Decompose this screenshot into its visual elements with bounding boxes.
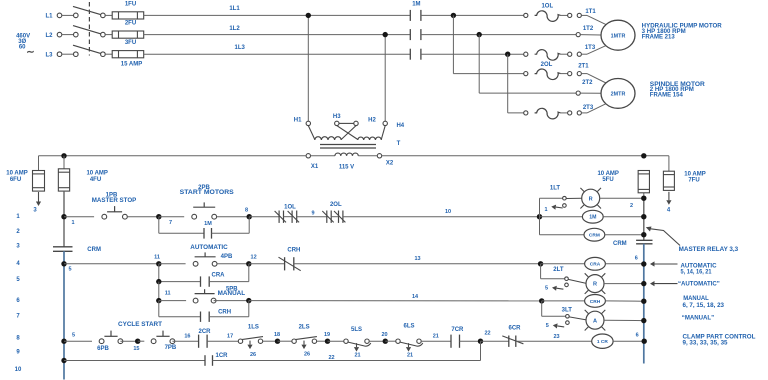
source label 460V 3-phase 60Hz xyxy=(16,33,35,58)
svg-text:T: T xyxy=(397,141,401,147)
svg-text:∼: ∼ xyxy=(26,47,34,58)
svg-text:4FU: 4FU xyxy=(90,177,101,183)
svg-text:2T1: 2T1 xyxy=(578,63,589,69)
svg-text:CRH: CRH xyxy=(218,310,231,316)
svg-text:START MOTORS: START MOTORS xyxy=(180,190,234,196)
pushbutton 4PB automatic NO xyxy=(190,245,233,266)
limit switch 5LS NC xyxy=(344,327,371,358)
node junction rung1 coils xyxy=(537,214,542,219)
ladder line numbers 1-10 xyxy=(15,214,22,373)
svg-text:1CR: 1CR xyxy=(216,353,229,359)
supply line L3 xyxy=(45,52,78,59)
svg-text:7: 7 xyxy=(169,220,172,226)
right rail lower blue xyxy=(643,244,645,364)
left rail lower blue xyxy=(63,251,65,379)
svg-text:1L1: 1L1 xyxy=(229,6,240,12)
svg-text:1MTR: 1MTR xyxy=(611,33,626,39)
control bus wire left xyxy=(39,155,307,157)
svg-text:2MTR: 2MTR xyxy=(611,92,626,98)
svg-text:1M: 1M xyxy=(589,215,596,221)
wire 7CR to node 22 xyxy=(460,340,481,342)
svg-text:X2: X2 xyxy=(386,160,394,166)
svg-text:2: 2 xyxy=(630,203,633,209)
svg-text:FRAME 154: FRAME 154 xyxy=(650,92,684,98)
disconnect switch blade pole L2 xyxy=(73,26,105,37)
svg-text:FRAME 213: FRAME 213 xyxy=(642,34,676,40)
svg-text:A: A xyxy=(593,318,597,324)
node rung9 left rail xyxy=(61,358,66,363)
svg-text:22: 22 xyxy=(484,330,490,336)
coil 1CR clamp relay xyxy=(592,333,645,349)
coil CRH manual relay xyxy=(542,295,644,308)
svg-text:1 CR: 1 CR xyxy=(597,339,608,345)
svg-text:1OL: 1OL xyxy=(284,204,296,210)
svg-text:26: 26 xyxy=(304,352,310,358)
limit switch 2LS NO xyxy=(292,324,317,357)
wire vertical node11 to rung6 xyxy=(158,282,160,301)
svg-text:5: 5 xyxy=(545,285,548,291)
node wire13 branch xyxy=(538,261,543,266)
pilot light R automatic xyxy=(585,273,644,294)
svg-text:7PB: 7PB xyxy=(165,345,177,351)
supply line L2 xyxy=(45,32,78,39)
svg-text:CRM: CRM xyxy=(613,241,627,247)
node control bus left rail xyxy=(61,153,66,158)
node pilot A right rail xyxy=(641,318,646,323)
svg-text:17: 17 xyxy=(227,333,233,339)
svg-text:2T2: 2T2 xyxy=(582,80,593,86)
svg-text:10: 10 xyxy=(15,367,22,373)
svg-text:9: 9 xyxy=(311,211,314,217)
wire rail to 1PB xyxy=(64,216,94,218)
node tap on 1L1 xyxy=(306,13,311,18)
svg-text:1: 1 xyxy=(544,207,547,213)
svg-text:5: 5 xyxy=(546,323,549,329)
svg-text:1T3: 1T3 xyxy=(585,45,596,51)
fuse 4FU on left rail xyxy=(58,156,108,191)
pilot light 2LT tap wire 5 xyxy=(541,264,587,292)
svg-text:R: R xyxy=(593,282,597,288)
contact 1M auxiliary seal-in xyxy=(159,217,249,239)
wire rail to 1CR contact xyxy=(64,360,205,362)
node 20 xyxy=(381,332,388,344)
node 18 xyxy=(274,332,280,344)
node CRM coil right rail xyxy=(641,232,646,237)
wire 23 xyxy=(516,334,592,341)
svg-text:H4: H4 xyxy=(396,123,404,129)
wire to 5PB xyxy=(159,300,186,302)
wire node12 to CRH contact xyxy=(249,263,285,265)
contact 1CR NO seal xyxy=(205,353,228,366)
node pilot R right rail xyxy=(641,281,646,286)
svg-text:6PB: 6PB xyxy=(97,346,109,352)
transformer T secondary winding X1-X2 115V xyxy=(306,153,394,170)
svg-text:20: 20 xyxy=(381,332,387,338)
svg-text:MASTER STOP: MASTER STOP xyxy=(92,198,137,204)
svg-text:1LT: 1LT xyxy=(550,185,561,191)
wire 1L2 xyxy=(144,26,411,35)
motor 2 nameplate text xyxy=(650,82,706,98)
wire to node 19 xyxy=(317,340,328,342)
svg-text:MASTER RELAY 3,3: MASTER RELAY 3,3 xyxy=(679,246,739,253)
pushbutton 2PB start motors NO xyxy=(180,185,234,219)
svg-text:1T1: 1T1 xyxy=(585,9,596,15)
disconnect switch blade pole L3 xyxy=(73,45,105,56)
motor 1 nameplate text xyxy=(642,23,723,40)
svg-text:6: 6 xyxy=(636,333,639,339)
branch wire to 2T2 xyxy=(479,35,576,94)
overload heater 1OL phase A xyxy=(524,4,582,22)
svg-text:5: 5 xyxy=(72,332,75,338)
limit switch 1LS NO xyxy=(238,324,263,358)
branch wire to 2T1 xyxy=(453,15,523,73)
svg-text:L2: L2 xyxy=(45,33,53,39)
terminal 2T2 xyxy=(576,80,601,95)
wire 1L1 tap to transformer H1 xyxy=(307,15,309,121)
terminal 1T1 xyxy=(581,9,606,25)
svg-text:6, 7, 15, 18, 23: 6, 7, 15, 18, 23 xyxy=(683,302,725,309)
node 1 on left rail xyxy=(61,214,74,226)
transformer T primary winding xyxy=(315,137,382,140)
svg-text:23: 23 xyxy=(553,334,559,340)
transformer T core xyxy=(320,141,401,148)
wire 14 xyxy=(249,294,542,301)
pilot light 1LT red with transformer tap wire 1 xyxy=(540,185,582,216)
contact 7CR NO xyxy=(451,327,464,348)
wire node15 to 7PB xyxy=(138,340,145,342)
annotation arrow quoted AUTOMATIC xyxy=(650,280,720,287)
svg-text:6: 6 xyxy=(635,256,638,262)
wire 22 rung9 xyxy=(213,355,481,361)
wire rail to 6PB xyxy=(64,340,92,342)
svg-text:6CR: 6CR xyxy=(508,325,521,331)
transformer T primary terminals H1 H3 H2 H4 xyxy=(294,114,405,140)
node CRA branch on vertical xyxy=(156,279,161,284)
svg-text:X1: X1 xyxy=(311,164,319,170)
wire 9 xyxy=(297,211,327,217)
svg-text:CRM: CRM xyxy=(87,247,101,253)
wire to node 20 xyxy=(369,340,385,342)
limit switch 6LS NC xyxy=(396,324,423,359)
svg-text:CRM: CRM xyxy=(589,233,600,239)
wire node22 down to rung9 xyxy=(480,341,482,360)
svg-text:5: 5 xyxy=(68,266,71,272)
node rung8 left rail xyxy=(61,332,75,344)
node 5 on left rail xyxy=(61,261,71,272)
pushbutton 1PB master stop NC xyxy=(92,192,137,219)
svg-text:AUTOMATIC: AUTOMATIC xyxy=(190,245,228,251)
node 11 xyxy=(154,255,161,267)
wire node7 to 2PB xyxy=(159,216,184,218)
svg-text:2CR: 2CR xyxy=(198,329,211,335)
pilot light A manual amber xyxy=(585,310,644,331)
pushbutton 6PB NC xyxy=(97,331,123,352)
node 1M coil right rail xyxy=(641,214,646,219)
svg-text:1OL: 1OL xyxy=(541,4,553,10)
node 6 on right rail xyxy=(635,256,647,267)
right rail upper xyxy=(643,198,645,240)
svg-text:19: 19 xyxy=(324,332,330,338)
node 2 on right rail xyxy=(630,196,647,210)
svg-text:1M: 1M xyxy=(204,221,212,227)
wire 17 xyxy=(207,333,238,341)
wire to node 18 xyxy=(263,340,278,342)
overload heater 1OL phase C xyxy=(524,50,582,61)
svg-text:2FU: 2FU xyxy=(125,21,136,27)
svg-text:L1: L1 xyxy=(45,14,53,20)
svg-text:12: 12 xyxy=(251,255,257,261)
svg-text:21: 21 xyxy=(354,352,360,358)
svg-text:13: 13 xyxy=(414,256,420,262)
contact 1OL NC overload xyxy=(275,204,300,223)
svg-text:21: 21 xyxy=(433,333,439,339)
svg-text:6LS: 6LS xyxy=(403,324,414,330)
contact 6CR NC xyxy=(502,325,523,347)
node 1CR coil right rail xyxy=(642,339,647,344)
svg-text:9, 33, 33, 35, 35: 9, 33, 33, 35, 35 xyxy=(683,339,729,346)
pushbutton 5PB manual NO xyxy=(193,286,245,303)
wire node5 to node11 xyxy=(64,263,159,265)
motor 2MTR spindle xyxy=(601,79,635,109)
node 22 xyxy=(478,330,491,344)
terminal 2T1 xyxy=(578,63,606,83)
wire row3 xyxy=(421,53,524,55)
svg-text:H3: H3 xyxy=(333,114,341,120)
left rail upper xyxy=(63,191,65,247)
wire 13 xyxy=(294,256,541,264)
svg-text:5, 14, 16, 21: 5, 14, 16, 21 xyxy=(681,268,713,275)
node T3 branch junction xyxy=(505,52,510,57)
svg-text:1L3: 1L3 xyxy=(235,45,246,51)
node control bus right rail xyxy=(641,153,646,158)
contact 2OL NC overload xyxy=(322,202,345,223)
svg-text:11: 11 xyxy=(154,255,160,261)
node T2 branch junction xyxy=(477,32,482,37)
motor 1MTR hydraulic pump xyxy=(601,20,635,50)
svg-text:“MANUAL”: “MANUAL” xyxy=(682,315,714,322)
svg-text:1: 1 xyxy=(71,220,74,226)
control bus wire right xyxy=(382,155,669,157)
svg-text:22: 22 xyxy=(328,355,334,361)
node 12 xyxy=(246,255,257,267)
svg-text:5LS: 5LS xyxy=(351,327,362,333)
svg-text:CRA: CRA xyxy=(212,272,226,278)
svg-text:CRH: CRH xyxy=(590,299,601,305)
annotation CLAMP PART CONTROL xyxy=(683,334,756,347)
svg-text:L3: L3 xyxy=(45,52,53,58)
fuse 3FU xyxy=(105,40,144,58)
svg-text:5FU: 5FU xyxy=(602,177,613,183)
node CRH coil right rail xyxy=(641,299,646,304)
coil 1M motor starter xyxy=(540,210,644,223)
coil CRA automatic relay xyxy=(541,257,644,270)
wire node18 to 2LS xyxy=(278,340,292,342)
svg-text:16: 16 xyxy=(184,333,190,339)
terminal 2T3 xyxy=(581,104,606,113)
svg-text:21: 21 xyxy=(407,352,413,358)
svg-text:26: 26 xyxy=(250,352,256,358)
svg-text:3FU: 3FU xyxy=(125,40,136,46)
svg-text:10 AMP: 10 AMP xyxy=(6,171,27,177)
node 7 xyxy=(156,214,172,226)
svg-text:1LS: 1LS xyxy=(248,324,259,330)
svg-text:CRA: CRA xyxy=(590,262,601,268)
wire 16 xyxy=(172,333,198,341)
node wire14 branch xyxy=(539,298,544,303)
pilot light 3LT tap wire 5 xyxy=(542,301,587,329)
svg-text:H1: H1 xyxy=(294,117,302,123)
wire 1PB to node 7 xyxy=(127,216,158,218)
svg-text:14: 14 xyxy=(412,294,419,300)
svg-text:H2: H2 xyxy=(368,117,376,123)
svg-text:2OL: 2OL xyxy=(330,202,342,208)
svg-text:115 V: 115 V xyxy=(339,165,354,171)
svg-text:CRH: CRH xyxy=(287,247,300,253)
fuse 1FU xyxy=(105,1,144,19)
wire node20 to 6LS xyxy=(385,340,396,342)
fuse 2FU xyxy=(105,21,144,39)
wire node11 to 4PB xyxy=(159,263,186,265)
wire 21 xyxy=(421,333,451,341)
svg-text:3LT: 3LT xyxy=(562,307,573,313)
svg-text:1L2: 1L2 xyxy=(229,26,240,32)
svg-text:R: R xyxy=(589,196,593,202)
wire 1M to motor branch row1 xyxy=(421,14,524,16)
node 8 xyxy=(245,207,252,219)
svg-text:2LT: 2LT xyxy=(553,267,564,273)
terminal 1T2 xyxy=(576,26,601,37)
terminal 1T3 xyxy=(581,45,606,54)
svg-text:7FU: 7FU xyxy=(688,178,699,184)
disconnect switch blade pole L1 xyxy=(73,6,105,17)
overload heater 2OL phase C xyxy=(524,108,582,119)
node tap on 1L2 xyxy=(383,32,388,37)
wire 6PB to node 15 xyxy=(120,340,137,342)
overload heater 2OL phase A xyxy=(524,62,582,80)
svg-text:6FU: 6FU xyxy=(10,177,21,183)
node rung6 right wire14 junction xyxy=(246,298,251,303)
svg-text:15 AMP: 15 AMP xyxy=(121,61,142,67)
node 19 xyxy=(324,332,330,344)
svg-text:1M: 1M xyxy=(412,1,420,7)
annotation arrow MASTER RELAY xyxy=(646,227,739,254)
disconnect switch dashed link xyxy=(88,2,90,56)
fuse 5FU on right rail xyxy=(597,171,649,199)
wire row2 xyxy=(421,34,576,36)
coil CRM master control relay xyxy=(540,217,644,241)
svg-text:2OL: 2OL xyxy=(541,62,553,68)
fuse 6FU with tap arrow wire 3 xyxy=(6,156,44,214)
contact CRA seal-in around 4PB xyxy=(159,264,249,287)
contact CRM on right rail xyxy=(613,240,653,247)
svg-text:10 AMP: 10 AMP xyxy=(86,171,107,177)
node T1 branch junction xyxy=(451,13,456,18)
svg-text:CYCLE START: CYCLE START xyxy=(118,322,162,328)
branch wire to 2T3 xyxy=(508,54,524,113)
annotation arrow AUTOMATIC 5,14,16,21 xyxy=(650,261,717,275)
wire 1L1 xyxy=(144,6,411,16)
svg-text:8: 8 xyxy=(245,207,248,213)
contact CRH seal-in around 5PB xyxy=(159,301,249,322)
annotation MANUAL 6,7,15,18,23 xyxy=(683,295,725,309)
svg-text:MANUAL: MANUAL xyxy=(218,291,246,297)
svg-text:MANUAL: MANUAL xyxy=(683,295,709,302)
svg-text:11: 11 xyxy=(165,290,171,296)
wire node8 to 1OL xyxy=(249,216,279,218)
fuse 7FU with tap arrow wire 4 xyxy=(663,156,705,214)
contact CRH NC rung4 xyxy=(279,247,301,270)
wire 4PB to node 12 xyxy=(217,263,249,265)
wire 1L3 xyxy=(144,45,411,54)
svg-text:10: 10 xyxy=(445,209,451,215)
wire 10 xyxy=(343,209,540,217)
wire 1L2 tap to transformer H4 xyxy=(384,35,386,122)
contact CRM on left rail xyxy=(53,247,101,253)
node 15 xyxy=(133,339,140,353)
svg-text:1T2: 1T2 xyxy=(583,26,594,32)
svg-text:1FU: 1FU xyxy=(125,1,136,7)
node rung6 left xyxy=(156,298,161,303)
svg-text:60: 60 xyxy=(19,44,26,50)
wire 5PB to node rung6 right xyxy=(214,300,249,302)
svg-text:15: 15 xyxy=(133,346,139,352)
svg-text:“AUTOMATIC”: “AUTOMATIC” xyxy=(678,280,720,287)
svg-text:18: 18 xyxy=(274,332,280,338)
pilot light R rung 1 xyxy=(580,188,643,209)
contact 2CR NO xyxy=(198,329,211,348)
pushbutton 7PB NC xyxy=(151,331,177,352)
wire node22 to 6CR xyxy=(481,340,509,342)
svg-text:7CR: 7CR xyxy=(451,327,464,333)
svg-text:2LS: 2LS xyxy=(299,324,310,330)
wire node19 to 5LS xyxy=(328,340,344,342)
wire 2PB to node 8 xyxy=(217,216,250,218)
supply line L1 xyxy=(45,13,78,20)
contactor 1M power contacts xyxy=(410,1,421,59)
svg-text:4PB: 4PB xyxy=(221,254,233,260)
